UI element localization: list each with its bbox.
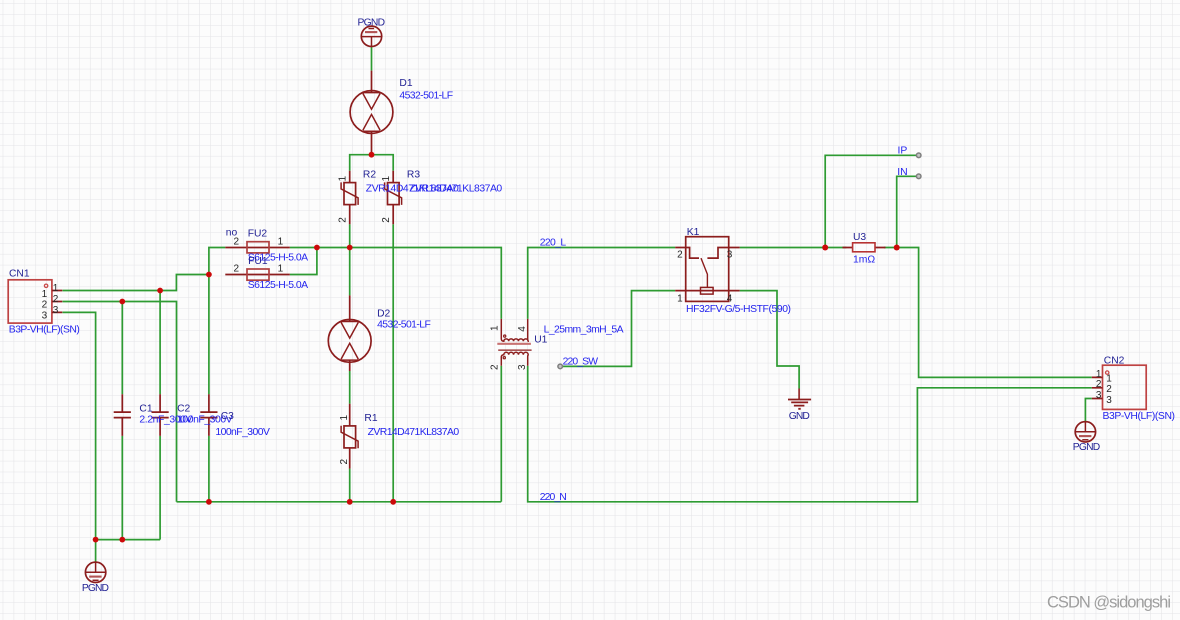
- svg-text:2: 2: [42, 300, 48, 311]
- svg-text:R2: R2: [363, 169, 376, 180]
- svg-text:3: 3: [1096, 390, 1102, 401]
- wire R2 bottom to fused-L: [349, 224, 351, 247]
- svg-text:PGND: PGND: [358, 18, 386, 29]
- wire fused-L horizontal to U1 pin1: [290, 248, 502, 319]
- svg-text:4532-501-LF: 4532-501-LF: [377, 319, 431, 330]
- svg-text:1: 1: [338, 176, 349, 182]
- connector CN1: [8, 280, 62, 323]
- wire PE rail to PGND: [95, 540, 97, 563]
- svg-text:C2: C2: [177, 404, 190, 415]
- svg-text:2: 2: [381, 217, 392, 223]
- wire FU1 output riser: [290, 248, 317, 275]
- svg-text:PGND: PGND: [1073, 442, 1101, 453]
- svg-text:C1: C1: [139, 404, 152, 415]
- gas discharge tube D2: [328, 295, 371, 371]
- wire IN stub: [897, 176, 919, 247]
- svg-text:100nF_300V: 100nF_300V: [215, 427, 270, 438]
- svg-text:1: 1: [1096, 369, 1102, 380]
- junction D1 bottom node: [369, 152, 375, 158]
- wire C1 top column: [121, 302, 123, 395]
- wire K1 pin3 to U3: [740, 247, 847, 249]
- svg-text:1: 1: [42, 289, 48, 300]
- wire D1 bottom node to R2/R3 tops: [350, 155, 394, 171]
- svg-text:CN2: CN2: [1104, 356, 1125, 367]
- svg-text:ZVR14D471KL837A0: ZVR14D471KL837A0: [409, 183, 502, 194]
- wire IP stub: [825, 155, 919, 247]
- junction IN branch: [894, 245, 900, 251]
- unconnected end IN: [916, 174, 921, 179]
- svg-text:2: 2: [1096, 379, 1102, 390]
- svg-text:2: 2: [1106, 384, 1112, 395]
- junction fuse outputs: [314, 245, 320, 251]
- svg-text:U1: U1: [534, 335, 547, 346]
- varistor R1: [341, 404, 358, 469]
- junction N rail R3: [390, 499, 396, 505]
- wire CN1 pin1 to fuse inputs: [63, 275, 209, 291]
- svg-text:220_N: 220_N: [540, 492, 567, 503]
- svg-text:B3P-VH(LF)(SN): B3P-VH(LF)(SN): [9, 324, 80, 335]
- svg-text:CSDN @sidongshi: CSDN @sidongshi: [1047, 594, 1171, 612]
- svg-text:FU2: FU2: [248, 229, 268, 240]
- ground GND: [788, 389, 811, 409]
- resistor U3: [843, 243, 886, 252]
- junction R2 bottom on fused-L: [347, 245, 353, 251]
- junction CN1 pin2 / C1: [119, 299, 125, 305]
- svg-text:1: 1: [1106, 374, 1112, 385]
- svg-text:3: 3: [727, 250, 733, 261]
- svg-text:R1: R1: [364, 413, 377, 424]
- wire U3 to CN2 pin1: [884, 248, 1092, 378]
- svg-text:3: 3: [517, 364, 528, 370]
- wire CN2 pin3 to PGND: [1085, 399, 1091, 422]
- junction IP branch: [822, 245, 828, 251]
- junction N rail R1: [347, 499, 353, 505]
- connector CN2: [1092, 365, 1146, 409]
- svg-text:2: 2: [677, 250, 683, 261]
- fuse FU2: [225, 242, 289, 253]
- ground PGND (top): [361, 26, 381, 46]
- svg-text:2: 2: [53, 294, 59, 305]
- svg-text:1: 1: [490, 325, 501, 331]
- svg-text:IN: IN: [897, 167, 907, 178]
- svg-text:B3P-VH(LF)(SN): B3P-VH(LF)(SN): [1103, 411, 1176, 422]
- svg-text:K1: K1: [687, 227, 700, 238]
- svg-text:IP: IP: [898, 145, 908, 156]
- wire D2 top: [349, 248, 351, 296]
- svg-text:L_25mm_3mH_5A: L_25mm_3mH_5A: [544, 324, 624, 335]
- wire D2 bottom to R1: [349, 371, 351, 404]
- ground PGND (right): [1075, 422, 1095, 442]
- svg-text:U3: U3: [853, 232, 866, 243]
- svg-text:2: 2: [339, 459, 350, 465]
- svg-text:FU1: FU1: [248, 256, 268, 267]
- wire left N rail: [177, 501, 502, 503]
- unconnected end IP: [916, 153, 921, 158]
- fuse FU1: [225, 269, 289, 280]
- wire U1 pin2 to left N rail: [500, 366, 502, 502]
- svg-text:C3: C3: [221, 411, 234, 422]
- capacitor C1: [114, 394, 131, 436]
- capacitor C3: [200, 394, 217, 436]
- ground PGND (bottom left): [85, 562, 105, 582]
- junction PE rail C1: [119, 537, 125, 543]
- svg-text:3: 3: [53, 305, 59, 316]
- wire 220_SW to K1 pin1: [560, 291, 675, 367]
- svg-text:CN1: CN1: [9, 269, 30, 280]
- wire C1 bottom column: [121, 436, 123, 540]
- junction N rail C3: [206, 499, 212, 505]
- relay K1: [675, 237, 740, 302]
- svg-text:3: 3: [42, 311, 48, 322]
- svg-text:1: 1: [278, 236, 284, 247]
- svg-text:1: 1: [677, 294, 683, 305]
- gas discharge tube D1: [350, 71, 393, 155]
- wire C3 top column: [208, 275, 210, 395]
- svg-text:R3: R3: [407, 169, 420, 180]
- svg-text:220_L: 220_L: [540, 237, 567, 248]
- svg-text:4: 4: [517, 326, 528, 332]
- wire U1 pin3 to 220_N: [528, 366, 1092, 502]
- unconnected end 220_SW: [558, 364, 563, 369]
- transformer U1: [497, 319, 531, 366]
- wire C2 bottom column: [159, 436, 161, 540]
- junction PE rail pin3: [93, 537, 99, 543]
- wire K1 pin4 to GND: [740, 291, 799, 389]
- wire FU2 input: [209, 248, 225, 275]
- svg-text:2: 2: [234, 236, 240, 247]
- wire C3 bottom column: [208, 436, 210, 502]
- svg-text:2: 2: [234, 264, 240, 275]
- svg-text:1: 1: [381, 176, 392, 182]
- wire R3 bottom to N rail: [392, 224, 394, 502]
- capacitor C2: [152, 394, 169, 436]
- svg-text:3: 3: [1106, 395, 1112, 406]
- svg-text:GND: GND: [789, 411, 810, 422]
- wire PGND to D1: [371, 46, 373, 70]
- junction fuse inputs / C3: [206, 272, 212, 278]
- wire R1 bottom to N rail: [349, 469, 351, 502]
- svg-text:4: 4: [727, 294, 733, 305]
- svg-text:D1: D1: [399, 78, 412, 89]
- svg-text:PGND: PGND: [82, 583, 109, 594]
- svg-text:HF32FV-G/5-HSTF(590): HF32FV-G/5-HSTF(590): [686, 304, 791, 315]
- wire C2 top column: [159, 291, 161, 395]
- svg-text:S6125-H-5.0A: S6125-H-5.0A: [248, 280, 308, 291]
- wire CN1 pin3 to PE rail: [63, 312, 161, 539]
- junction CN1 pin1 / C2: [157, 288, 163, 294]
- svg-text:2: 2: [338, 217, 349, 223]
- varistor R3: [385, 171, 402, 224]
- svg-text:D2: D2: [377, 309, 390, 320]
- svg-text:1: 1: [53, 283, 59, 294]
- svg-text:2: 2: [490, 364, 501, 370]
- svg-text:1: 1: [278, 264, 284, 275]
- svg-text:220_SW: 220_SW: [563, 356, 599, 367]
- wire CN1 pin2 to N rail: [63, 302, 177, 502]
- svg-text:4532-501-LF: 4532-501-LF: [399, 90, 453, 101]
- varistor R2: [341, 171, 358, 224]
- svg-text:1: 1: [339, 415, 350, 421]
- svg-text:1mΩ: 1mΩ: [853, 254, 875, 265]
- wire 220_L from U1 pin4 to K1: [528, 248, 676, 319]
- svg-text:ZVR14D471KL837A0: ZVR14D471KL837A0: [368, 427, 460, 438]
